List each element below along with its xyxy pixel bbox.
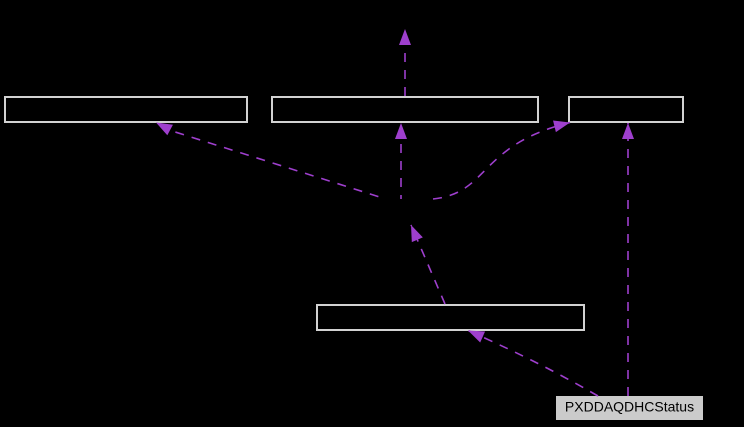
node box top-right: [569, 97, 683, 122]
node box top-middle: [272, 97, 538, 122]
wire middle box to center node: [411, 225, 445, 304]
node PXDDAQDHCStatus: [556, 396, 703, 420]
wire center node to top-middle box: [400, 123, 402, 199]
svg-text:PXDDAQDHCStatus: PXDDAQDHCStatus: [565, 399, 694, 415]
wire PXDDAQDHCStatus to middle box: [468, 331, 598, 397]
wire center node to top-right box: [433, 123, 570, 200]
node box top-left: [5, 97, 247, 122]
node box middle: [317, 305, 584, 330]
wire arrow up from top-middle box: [404, 29, 406, 96]
wire center node to top-left box: [156, 123, 386, 200]
wire PXDDAQDHCStatus to top-right box: [627, 123, 629, 396]
